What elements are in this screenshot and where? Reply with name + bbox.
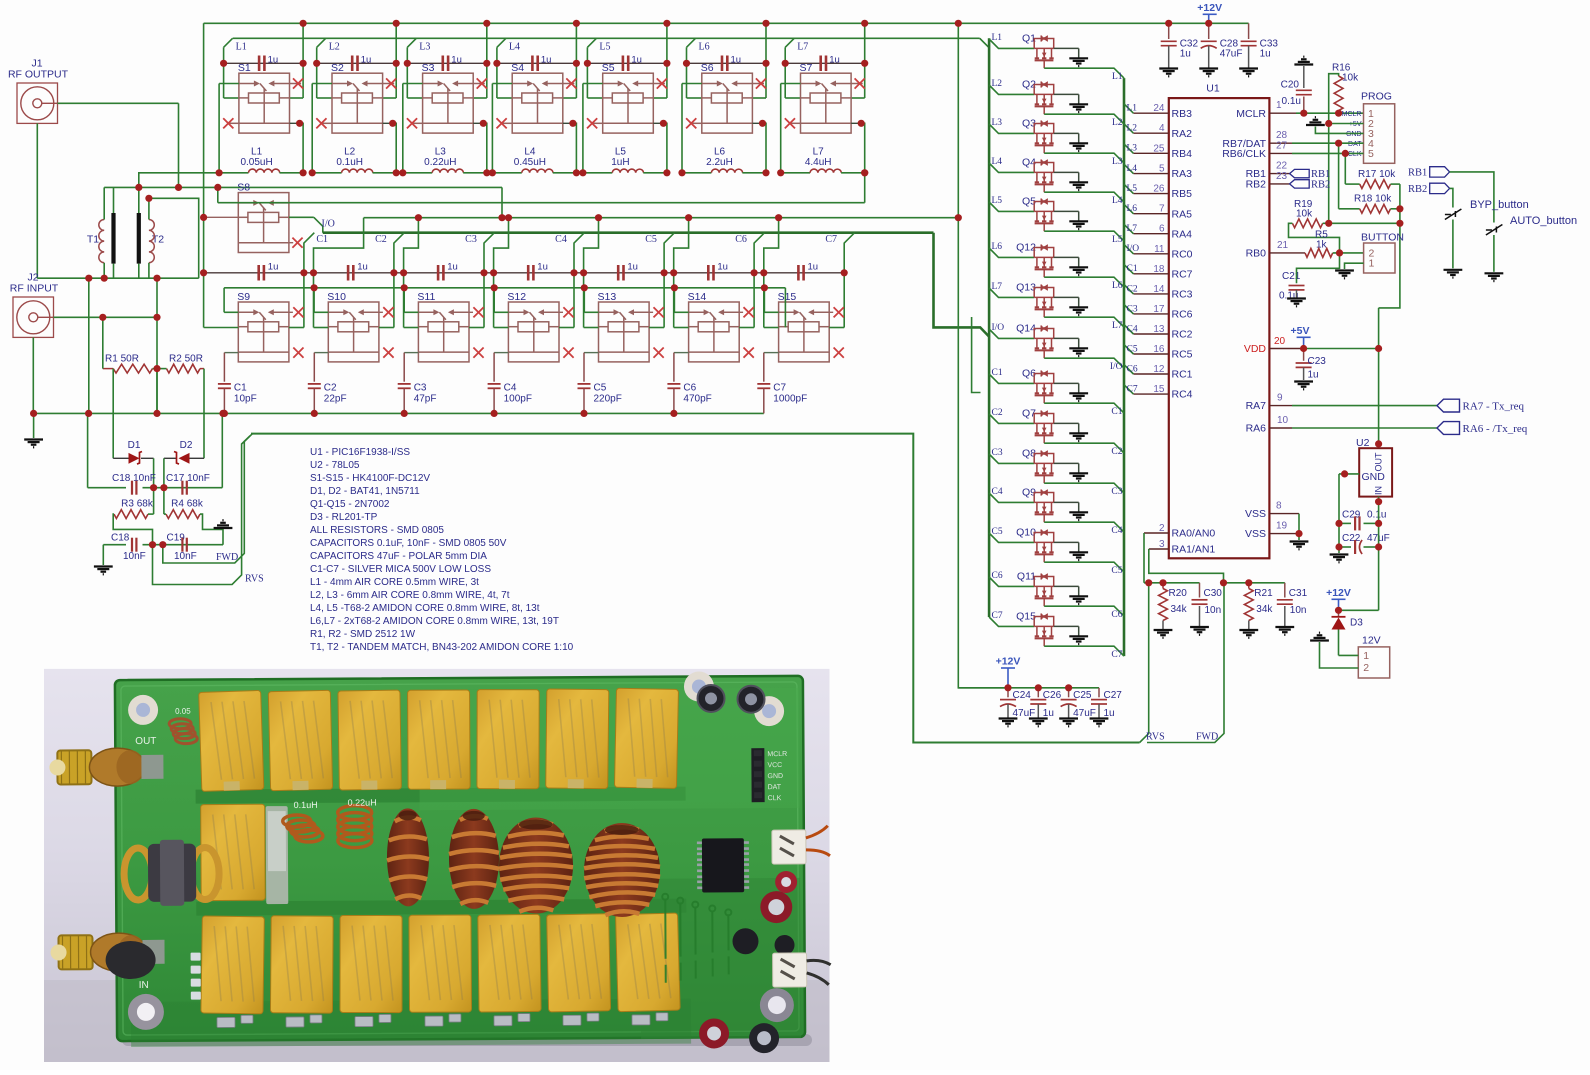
svg-text:C6: C6 <box>992 571 1003 581</box>
tag RB1 right <box>1430 167 1450 177</box>
svg-text:C3: C3 <box>414 383 427 394</box>
node L6 flag <box>687 38 696 47</box>
svg-text:S3: S3 <box>422 62 435 74</box>
svg-text:1u: 1u <box>1043 708 1054 719</box>
transistor Q11 <box>1017 571 1054 607</box>
transformer T2 <box>139 213 164 264</box>
wire button pullup column <box>1379 184 1400 308</box>
svg-text:ALL RESISTORS - SMD 0805: ALL RESISTORS - SMD 0805 <box>310 525 444 536</box>
wire RF drop to +12V row <box>501 187 503 217</box>
svg-text:U1 - PIC16F1938-I/SS: U1 - PIC16F1938-I/SS <box>310 447 410 458</box>
pin 11 RC0 <box>1133 253 1168 255</box>
svg-text:1u: 1u <box>1308 370 1319 381</box>
svg-text:47pF: 47pF <box>414 394 437 405</box>
svg-text:Q13: Q13 <box>1016 282 1036 294</box>
svg-text:D1, D2 - BAT41, 1N5711: D1, D2 - BAT41, 1N5711 <box>310 486 420 497</box>
IC U1 PIC16F1938 <box>1169 83 1270 559</box>
photo relay middle <box>201 804 266 900</box>
capacitor C26 1u <box>1037 688 1039 698</box>
svg-text:CAPACITORS 47uF - POLAR 5mm DI: CAPACITORS 47uF - POLAR 5mm DIA <box>310 551 487 562</box>
wire gate feed Q5 <box>989 202 1034 211</box>
wire cap row S6 <box>687 62 767 64</box>
tag RA7 Tx_req <box>1437 399 1460 412</box>
svg-text:0.1uH: 0.1uH <box>294 800 318 810</box>
svg-text:10nF: 10nF <box>123 551 146 562</box>
svg-text:RF OUTPUT: RF OUTPUT <box>8 69 69 81</box>
svg-text:Q1-Q15 - 2N7002: Q1-Q15 - 2N7002 <box>310 499 390 510</box>
wire Q8 source to ground <box>1054 462 1079 464</box>
svg-text:C24: C24 <box>1013 690 1032 701</box>
wire J2 to T network <box>54 316 158 318</box>
svg-text:C31: C31 <box>1289 588 1308 599</box>
svg-text:CAPACITORS 0.1uF, 10nF - SMD 0: CAPACITORS 0.1uF, 10nF - SMD 0805 50V <box>310 538 507 549</box>
wire coil feeds S9 <box>203 273 205 328</box>
wire switch common S2 <box>312 83 332 85</box>
photo wires right edge <box>806 826 830 856</box>
svg-text:1u: 1u <box>537 262 548 273</box>
svg-text:RB0: RB0 <box>1246 248 1267 260</box>
wire A-node drop to coil S2 <box>316 63 318 98</box>
wire C18a left to gnd rail <box>87 413 89 487</box>
svg-text:2: 2 <box>1363 662 1369 674</box>
wire R21 C31 rail <box>1224 582 1285 584</box>
svg-text:RVS: RVS <box>245 574 264 585</box>
svg-text:47uF: 47uF <box>1220 49 1243 60</box>
wire T row to ground rail <box>88 278 90 413</box>
wire drive net C1 drop <box>304 233 314 273</box>
svg-text:C1: C1 <box>992 368 1003 378</box>
svg-text:C5: C5 <box>594 383 607 394</box>
relay S2 <box>331 62 383 133</box>
photo of assembled PCB <box>44 669 831 1062</box>
svg-text:L6: L6 <box>714 147 726 158</box>
wire cap row S3 <box>407 62 487 64</box>
wire drive net C5 drop <box>664 233 674 273</box>
wire bottom contact S2 <box>321 122 332 124</box>
wire A-node drop to coil S5 <box>586 63 588 98</box>
svg-text:C18 10nF: C18 10nF <box>112 473 156 484</box>
wire 12V pin1 <box>1339 654 1359 656</box>
wire Q1 source to ground <box>1054 47 1079 49</box>
svg-text:I/O: I/O <box>322 219 335 230</box>
svg-text:RB3: RB3 <box>1172 108 1193 120</box>
pin 9 RA7 <box>1269 405 1292 407</box>
svg-text:L3: L3 <box>1112 157 1123 167</box>
svg-text:MCLR: MCLR <box>767 751 787 758</box>
svg-text:0.45uH: 0.45uH <box>514 157 546 168</box>
transistor Q9 <box>1022 487 1054 523</box>
svg-text:C27: C27 <box>1104 690 1123 701</box>
svg-text:1u: 1u <box>451 55 462 66</box>
svg-text:DAT: DAT <box>768 784 782 791</box>
wire cap row S5 <box>587 62 667 64</box>
photo gray block <box>266 806 289 904</box>
svg-text:R17 10k: R17 10k <box>1358 169 1396 180</box>
transistor Q12 <box>1016 242 1054 278</box>
ground BUTTON <box>1335 271 1354 279</box>
capacitor 1u snubber S6 <box>721 56 724 72</box>
capacitor C2 22pF <box>314 352 328 354</box>
svg-text:L1: L1 <box>992 33 1003 43</box>
svg-text:RC0: RC0 <box>1172 248 1193 260</box>
wire A-node drop to coil S1 <box>223 63 225 98</box>
capacitor C23 1u <box>1303 349 1305 361</box>
wire Q5 source to ground <box>1054 210 1079 212</box>
node I/O flag S8 <box>314 217 323 232</box>
ground at Q1 <box>1069 58 1088 66</box>
no-connect X S2 right <box>383 83 395 85</box>
wire coil feeds S11 <box>403 273 405 328</box>
svg-text:C5: C5 <box>992 527 1003 537</box>
photo white connectors <box>772 830 806 864</box>
transistor Q4 <box>1022 157 1054 193</box>
svg-text:CLK: CLK <box>1348 151 1362 158</box>
capacitor C6 470pF <box>674 352 689 354</box>
wire gate feed Q1 <box>989 39 1034 48</box>
svg-text:7: 7 <box>1159 204 1165 215</box>
wire coil feeds S15 <box>763 273 765 328</box>
pin 12 RC1 <box>1133 373 1168 375</box>
wire gate feed Q7 <box>989 414 1034 423</box>
wire switch common S7 <box>781 83 801 85</box>
svg-text:RC4: RC4 <box>1172 389 1193 401</box>
wire S8 coil right to I/O <box>289 216 314 218</box>
svg-text:C25: C25 <box>1073 690 1092 701</box>
wire J2 riser <box>156 278 158 413</box>
wire BUTTON pin1 to ground <box>1345 263 1364 269</box>
svg-text:C21: C21 <box>1282 271 1301 282</box>
no-connect X S10 contacts <box>379 311 383 313</box>
photo caps right edge <box>775 871 797 893</box>
wire gate feed Q9 <box>989 493 1034 502</box>
svg-text:C2: C2 <box>375 234 387 245</box>
wire output Q14 <box>1044 358 1124 368</box>
wire +12V jog S14 <box>674 218 689 273</box>
svg-text:L4: L4 <box>1127 164 1138 174</box>
wire Q6 source to ground <box>1054 382 1079 384</box>
svg-text:L4, L5 -T68-2 AMIDON CORE 0.8m: L4, L5 -T68-2 AMIDON CORE 0.8mm WIRE, 8t… <box>310 603 540 614</box>
svg-text:RB2: RB2 <box>1246 179 1267 191</box>
svg-text:1u: 1u <box>357 262 368 273</box>
svg-text:L3: L3 <box>419 42 430 53</box>
wire gate feed Q11 <box>989 577 1034 586</box>
node L5 flag <box>587 38 596 47</box>
svg-text:RA6 - /Tx_req: RA6 - /Tx_req <box>1463 423 1528 435</box>
svg-text:5: 5 <box>1159 164 1165 175</box>
wire S8 coil left +12V <box>204 216 239 218</box>
svg-text:RC3: RC3 <box>1172 289 1193 301</box>
svg-text:26: 26 <box>1153 184 1165 195</box>
svg-text:L2, L3 - 6mm AIR CORE 0.8mm WI: L2, L3 - 6mm AIR CORE 0.8mm WIRE, 4t, 7t <box>310 590 510 601</box>
svg-text:C4: C4 <box>992 487 1003 497</box>
wire +12V mid vertical <box>958 23 1008 688</box>
svg-text:S15: S15 <box>778 291 797 303</box>
svg-text:RVS: RVS <box>1146 732 1165 743</box>
svg-text:1u: 1u <box>447 262 458 273</box>
connector J2 RF INPUT <box>10 272 59 338</box>
svg-text:L4: L4 <box>1112 196 1123 206</box>
wire gate feed Q10 <box>989 533 1034 542</box>
ground inverted near R4 <box>214 520 233 528</box>
wire coil feeds S10 <box>313 273 315 328</box>
svg-text:L7: L7 <box>813 147 825 158</box>
wire output Q6 <box>1044 403 1124 413</box>
svg-text:C26: C26 <box>1043 690 1062 701</box>
wire +12V jog S10 <box>314 218 364 273</box>
wire drive net C3 drop <box>484 233 494 273</box>
wire output Q4 <box>1044 192 1124 202</box>
photo relays top row <box>199 690 264 791</box>
wire +12V drop to coil S7 <box>864 23 866 98</box>
wire +12V jog S12 <box>494 218 509 273</box>
pin 3 RA1/AN1 <box>1149 548 1169 550</box>
wire gate feed Q12 <box>989 248 1034 257</box>
ground AUTO <box>1485 273 1504 281</box>
capacitor C4 100pF <box>494 352 508 354</box>
capacitor 1u snubber S9 <box>257 265 260 281</box>
svg-text:+12V: +12V <box>1197 2 1222 14</box>
svg-text:+12V: +12V <box>996 656 1021 668</box>
ground at Q2 <box>1069 104 1088 112</box>
wire J2 shell to ground rail <box>32 338 34 414</box>
svg-text:OUT: OUT <box>135 736 156 747</box>
svg-text:RB6/CLK: RB6/CLK <box>1222 148 1266 160</box>
wire coil feeds S14 <box>673 273 675 328</box>
ground R20 <box>1154 630 1173 638</box>
svg-text:L1: L1 <box>236 42 247 53</box>
svg-text:C7: C7 <box>992 611 1003 621</box>
wire output Q10 <box>1044 562 1124 572</box>
ground C26 <box>1029 719 1048 727</box>
svg-text:PROG: PROG <box>1361 91 1392 103</box>
no-connect X S11 contacts <box>469 311 473 313</box>
wire cap row S4 <box>497 62 577 64</box>
wire switch common S3 <box>403 83 423 85</box>
svg-text:470pF: 470pF <box>683 394 711 405</box>
svg-text:Q10: Q10 <box>1016 527 1036 539</box>
inductor L3 <box>403 172 432 174</box>
relay S11 <box>417 291 469 362</box>
wire D2 down <box>163 458 165 514</box>
svg-text:S1-S15 - HK4100F-DC12V: S1-S15 - HK4100F-DC12V <box>310 473 430 484</box>
svg-text:RA5: RA5 <box>1172 208 1193 220</box>
capacitor C5 220pF <box>584 352 599 354</box>
svg-text:L7: L7 <box>992 282 1003 292</box>
svg-text:MCLR: MCLR <box>1342 111 1362 118</box>
svg-text:RB4: RB4 <box>1172 148 1193 160</box>
svg-text:17: 17 <box>1153 304 1165 315</box>
capacitor 1u snubber S15 <box>797 265 800 281</box>
svg-text:C7: C7 <box>1111 650 1122 660</box>
svg-text:S1: S1 <box>238 62 251 74</box>
wire A-node drop to coil S3 <box>406 63 408 98</box>
pin 27 RB6/CLK <box>1269 152 1292 154</box>
svg-text:10pF: 10pF <box>234 394 257 405</box>
svg-text:S12: S12 <box>507 291 526 303</box>
wire cap row S7 <box>785 62 865 64</box>
node L4 at pin 5 <box>1124 164 1133 173</box>
ground C23 <box>1294 382 1313 390</box>
capacitor 1u snubber S2 <box>351 56 354 72</box>
ground C30 <box>1190 627 1209 635</box>
pin 16 RC5 <box>1133 353 1168 355</box>
svg-text:1u: 1u <box>717 262 728 273</box>
svg-text:1u: 1u <box>1260 49 1271 60</box>
wire gate feed Q15 <box>989 617 1034 626</box>
photo electrolytic caps top right <box>697 685 724 712</box>
wire A-node drop to coil S7 <box>784 63 786 98</box>
wire common riser S14 <box>674 311 688 313</box>
wire +12V jog S11 <box>404 218 419 273</box>
node L1 flag <box>224 38 233 47</box>
relay S9 <box>237 291 289 362</box>
svg-text:6: 6 <box>1159 224 1165 235</box>
node L5 at pin 26 <box>1124 184 1133 193</box>
svg-text:IN: IN <box>1374 486 1384 495</box>
no-connect X S1 right <box>290 83 302 85</box>
wire Q11 source to ground <box>1054 585 1079 587</box>
wire D3 down <box>1338 630 1340 656</box>
wire J1 to RF line <box>58 102 179 104</box>
wire R1 R2 joints <box>153 368 167 370</box>
svg-text:C1: C1 <box>316 234 328 245</box>
relay S10 <box>327 291 379 362</box>
wire switch common S1 <box>219 83 239 85</box>
svg-text:T1, T2 - TANDEM MATCH, BN43-20: T1, T2 - TANDEM MATCH, BN43-202 AMIDON C… <box>310 642 574 653</box>
tag RB2 left <box>1290 180 1310 188</box>
svg-text:RA7: RA7 <box>1246 400 1267 412</box>
svg-text:VCC: VCC <box>767 762 782 769</box>
node C7 at pin 15 <box>1124 385 1133 394</box>
svg-text:C18: C18 <box>111 533 130 544</box>
svg-text:RA3: RA3 <box>1172 168 1193 180</box>
wire FWD tail right <box>1147 583 1224 743</box>
capacitor 1u snubber S4 <box>531 56 534 72</box>
svg-text:RB2: RB2 <box>1408 184 1427 195</box>
svg-text:C6: C6 <box>683 383 696 394</box>
svg-text:15: 15 <box>1153 384 1165 395</box>
relay S6 <box>701 62 753 133</box>
svg-text:L4: L4 <box>524 147 536 158</box>
svg-text:C7: C7 <box>1127 385 1138 395</box>
svg-text:10: 10 <box>1277 415 1289 426</box>
relay S14 <box>688 291 740 362</box>
svg-text:C4: C4 <box>504 383 517 394</box>
svg-text:100pF: 100pF <box>504 394 532 405</box>
svg-text:C4: C4 <box>1127 324 1138 334</box>
relay S13 <box>598 291 650 362</box>
svg-text:C2: C2 <box>324 383 337 394</box>
pin 25 RB4 <box>1133 152 1168 154</box>
wire J1 shell to ground row <box>36 123 38 278</box>
pin 2 RA0/AN0 <box>1144 532 1169 534</box>
wire common riser S11 <box>404 311 418 313</box>
photo SMA connectors <box>57 750 91 784</box>
svg-text:20: 20 <box>1274 336 1286 347</box>
wire +12V feed left vertical <box>203 23 205 272</box>
svg-text:C17 10nF: C17 10nF <box>166 473 210 484</box>
ground C21 <box>1287 299 1306 307</box>
tag RA6 /Tx_req <box>1437 422 1460 435</box>
ground at Q8 <box>1069 473 1088 481</box>
svg-text:VSS: VSS <box>1245 508 1266 520</box>
wire inductor row right end to S8 common <box>864 173 866 203</box>
no-connect X S3 right <box>473 83 485 85</box>
wire RA1 to FWD rail <box>1149 549 1224 583</box>
capacitor C1 10pF <box>224 352 238 354</box>
svg-text:MCLR: MCLR <box>1236 108 1266 120</box>
svg-text:Q14: Q14 <box>1016 323 1036 335</box>
svg-text:1u: 1u <box>1104 708 1115 719</box>
svg-text:RF INPUT: RF INPUT <box>10 283 59 295</box>
svg-text:22pF: 22pF <box>324 394 347 405</box>
svg-text:S8: S8 <box>237 182 250 194</box>
svg-text:S6: S6 <box>701 62 714 74</box>
svg-text:S2: S2 <box>331 62 344 74</box>
svg-text:0.22uH: 0.22uH <box>424 157 456 168</box>
svg-text:11: 11 <box>1154 244 1165 255</box>
svg-text:C1-C7 - SILVER MICA 500V LOW L: C1-C7 - SILVER MICA 500V LOW LOSS <box>310 564 491 575</box>
capacitor C20 0.1u <box>1303 97 1305 114</box>
svg-text:S9: S9 <box>237 291 250 303</box>
transformer T1 <box>87 213 114 264</box>
svg-text:S14: S14 <box>688 291 707 303</box>
wire +12V top bus <box>204 22 1249 24</box>
wire Q gate bundle column <box>988 38 991 617</box>
wire output Q1 <box>1044 68 1124 78</box>
svg-text:L3: L3 <box>1127 144 1138 154</box>
connector 12V <box>1358 635 1389 679</box>
no-connect X S8 <box>289 242 293 244</box>
svg-text:13: 13 <box>1153 324 1165 335</box>
ground C25 <box>1059 719 1078 727</box>
relay S5 <box>602 62 654 133</box>
svg-text:0.05: 0.05 <box>175 707 191 716</box>
capacitor C3 47pF <box>404 352 418 354</box>
wire row2 +12V line <box>364 217 959 219</box>
inductor L2 <box>312 172 341 174</box>
photo air-core coils <box>169 718 372 849</box>
svg-text:C2: C2 <box>1127 284 1138 294</box>
photo board shadow <box>122 1034 812 1046</box>
pin 6 RA4 <box>1133 233 1168 235</box>
svg-text:GND: GND <box>1346 131 1362 138</box>
svg-text:L1: L1 <box>251 147 263 158</box>
svg-text:L3: L3 <box>992 118 1003 128</box>
wire FWD RVS bundle to right <box>251 434 1140 743</box>
ground at Q6 <box>1069 393 1088 401</box>
wire Q9 source to ground <box>1054 501 1079 503</box>
svg-text:5: 5 <box>1368 148 1374 160</box>
ground C31 <box>1275 627 1294 635</box>
ground VSS <box>1290 542 1309 550</box>
svg-text:21: 21 <box>1277 240 1289 251</box>
svg-text:10nF: 10nF <box>174 551 197 562</box>
svg-text:D1: D1 <box>128 440 141 451</box>
svg-text:220pF: 220pF <box>594 394 622 405</box>
svg-text:BUTTON: BUTTON <box>1361 232 1404 244</box>
wire bottom contact S7 <box>790 122 801 124</box>
svg-text:C6: C6 <box>1111 610 1122 620</box>
svg-text:1u: 1u <box>361 55 372 66</box>
ground U2 <box>1330 555 1349 563</box>
transistor Q14 <box>1016 323 1054 359</box>
pin 22 RB1 <box>1269 173 1289 175</box>
wire diagonal into Q gate column <box>980 38 989 47</box>
wire gate feed Q3 <box>989 124 1034 133</box>
svg-text:L2: L2 <box>1127 124 1138 134</box>
photo relays bottom row <box>201 916 264 1014</box>
